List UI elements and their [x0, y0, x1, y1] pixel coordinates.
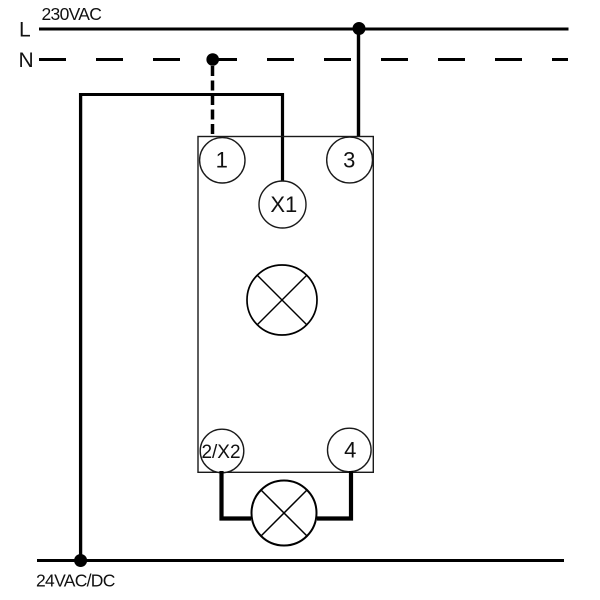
svg-text:L: L — [19, 19, 31, 42]
terminal 2/X2 — [200, 429, 244, 473]
junction dot on 24V line — [74, 554, 87, 567]
wire left vertical 24V branch — [79, 93, 82, 561]
wire drop to terminal X1 — [281, 93, 284, 182]
svg-text:X1: X1 — [270, 192, 297, 217]
wire from terminal 4 to external lamp — [317, 471, 351, 519]
terminal 3 — [327, 137, 373, 183]
wire N line dashed — [39, 58, 568, 61]
wire dashed from N junction down to terminal 1 — [211, 66, 215, 137]
terminal X1 — [259, 181, 306, 228]
wire from terminal 2/X2 to external lamp — [222, 471, 252, 519]
svg-text:2/X2: 2/X2 — [201, 442, 240, 463]
svg-text:1: 1 — [216, 148, 228, 173]
wire L line — [39, 28, 569, 31]
external lamp symbol — [252, 481, 317, 546]
svg-text:N: N — [19, 49, 34, 72]
wire from L junction down to terminal 3 — [357, 29, 360, 137]
device outline rectangle — [198, 137, 373, 473]
terminal 4 — [328, 428, 372, 472]
svg-text:4: 4 — [344, 437, 356, 462]
lamp indicator symbol inside device — [247, 265, 317, 335]
wire 24V bottom supply line — [37, 559, 564, 562]
svg-text:3: 3 — [343, 148, 355, 173]
terminal 1 — [200, 138, 245, 183]
wire horizontal branch to X1 — [79, 93, 284, 96]
junction dot on N line — [206, 53, 219, 66]
svg-text:230VAC: 230VAC — [42, 4, 102, 24]
junction dot on L line — [353, 22, 366, 35]
svg-text:24VAC/DC: 24VAC/DC — [36, 570, 115, 590]
